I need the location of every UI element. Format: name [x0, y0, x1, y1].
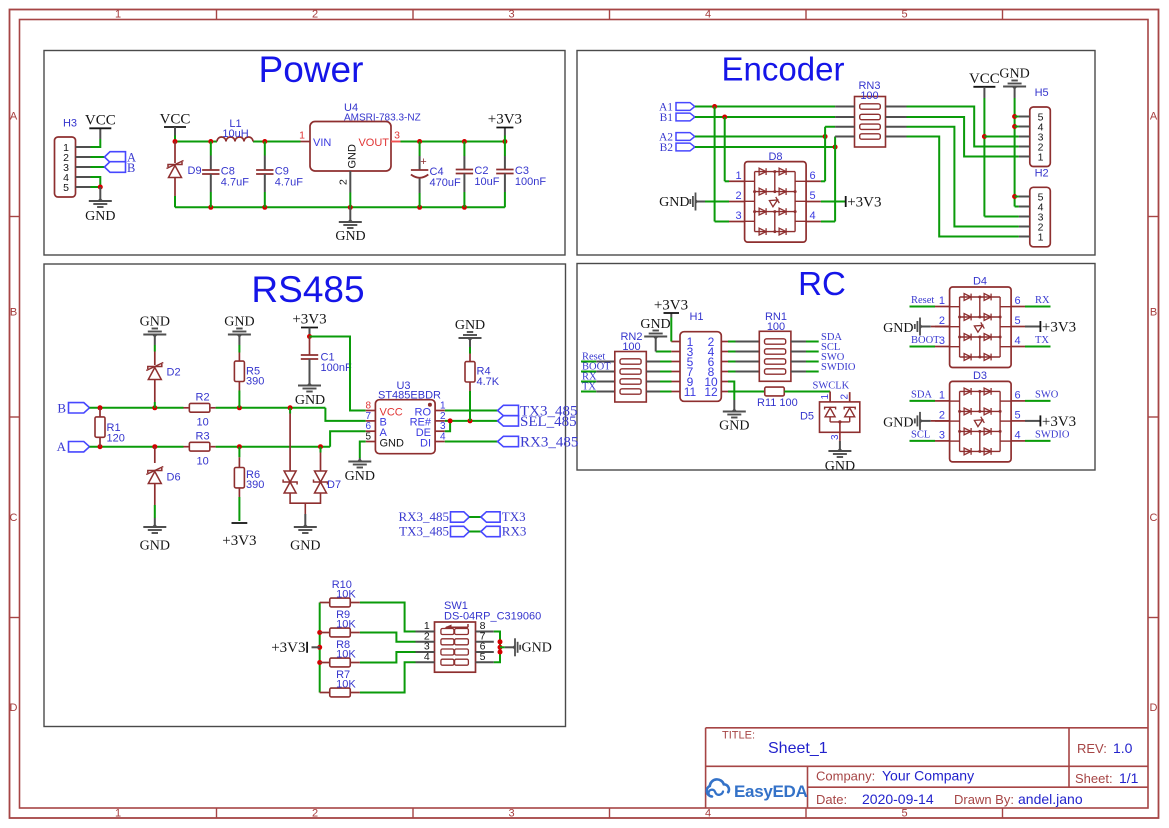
svg-text:+3V3: +3V3 — [654, 298, 688, 314]
svg-text:Reset: Reset — [911, 295, 934, 306]
svg-text:5: 5 — [809, 190, 815, 202]
svg-text:4: 4 — [809, 210, 815, 222]
svg-text:B: B — [57, 400, 66, 415]
svg-text:SWDIO: SWDIO — [1035, 430, 1070, 441]
svg-text:100nF: 100nF — [321, 362, 352, 374]
svg-text:100: 100 — [767, 321, 785, 333]
svg-text:10: 10 — [197, 456, 209, 468]
svg-text:4.7uF: 4.7uF — [221, 177, 249, 189]
svg-text:+3V3: +3V3 — [488, 112, 522, 128]
svg-text:10K: 10K — [336, 649, 356, 661]
svg-text:1: 1 — [939, 295, 945, 307]
svg-text:GND: GND — [659, 195, 689, 210]
svg-text:D7: D7 — [327, 479, 341, 491]
svg-text:GND: GND — [455, 318, 485, 333]
svg-text:GND: GND — [999, 67, 1029, 82]
svg-text:D4: D4 — [973, 276, 987, 288]
svg-text:GND: GND — [140, 315, 170, 330]
svg-text:Sheet:: Sheet: — [1075, 771, 1113, 786]
svg-text:120: 120 — [107, 433, 125, 445]
svg-text:A: A — [57, 439, 67, 454]
svg-text:1.0: 1.0 — [1113, 740, 1133, 756]
svg-text:B: B — [1150, 307, 1157, 319]
svg-text:2020-09-14: 2020-09-14 — [862, 791, 934, 807]
svg-text:GND: GND — [224, 315, 254, 330]
svg-text:+: + — [420, 156, 426, 168]
svg-text:3: 3 — [508, 9, 514, 21]
svg-text:+3V3: +3V3 — [222, 533, 256, 549]
svg-text:10uF: 10uF — [474, 176, 499, 188]
svg-text:Drawn By:: Drawn By: — [954, 792, 1014, 807]
svg-text:D: D — [10, 702, 18, 714]
svg-text:+3V3: +3V3 — [271, 640, 305, 656]
svg-text:AMSRI-783.3-NZ: AMSRI-783.3-NZ — [344, 113, 421, 124]
svg-text:5: 5 — [901, 808, 907, 820]
svg-text:D8: D8 — [768, 151, 782, 163]
svg-text:3: 3 — [508, 808, 514, 820]
svg-text:EasyEDA: EasyEDA — [734, 782, 808, 801]
svg-text:GND: GND — [140, 539, 170, 554]
svg-text:BOOT: BOOT — [911, 335, 940, 346]
svg-text:3: 3 — [735, 210, 741, 222]
svg-text:3: 3 — [939, 429, 945, 441]
svg-text:2: 2 — [312, 808, 318, 820]
svg-text:SEL_485: SEL_485 — [520, 414, 577, 430]
svg-text:2: 2 — [939, 315, 945, 327]
svg-text:GND: GND — [85, 209, 115, 224]
svg-text:4: 4 — [1014, 429, 1020, 441]
svg-text:5: 5 — [1014, 409, 1020, 421]
svg-text:GND: GND — [347, 144, 359, 169]
svg-text:390: 390 — [246, 479, 264, 491]
svg-text:RC: RC — [798, 265, 846, 302]
svg-text:4: 4 — [705, 808, 711, 820]
svg-text:TX: TX — [1035, 335, 1049, 346]
svg-text:REV:: REV: — [1077, 741, 1107, 756]
svg-text:4: 4 — [1014, 335, 1020, 347]
svg-text:+3V3: +3V3 — [847, 195, 881, 211]
svg-text:SWO: SWO — [1035, 390, 1059, 401]
svg-text:B2: B2 — [660, 142, 674, 154]
svg-text:100: 100 — [860, 90, 878, 102]
svg-text:GND: GND — [883, 321, 913, 336]
svg-text:10uH: 10uH — [222, 128, 248, 140]
svg-text:DI: DI — [420, 437, 431, 449]
svg-text:SWDIO: SWDIO — [821, 362, 856, 373]
svg-text:A: A — [10, 111, 18, 123]
svg-text:GND: GND — [345, 469, 375, 484]
svg-text:Company:: Company: — [816, 769, 875, 784]
svg-text:D3: D3 — [973, 370, 987, 382]
svg-text:GND: GND — [825, 459, 855, 474]
svg-text:GND: GND — [290, 539, 320, 554]
svg-text:Power: Power — [259, 49, 364, 90]
svg-text:H5: H5 — [1035, 87, 1049, 99]
svg-text:6: 6 — [809, 170, 815, 182]
svg-text:GND: GND — [640, 317, 670, 332]
svg-text:C: C — [10, 512, 18, 524]
svg-text:470uF: 470uF — [430, 177, 461, 189]
svg-text:11: 11 — [684, 385, 697, 399]
svg-text:Your Company: Your Company — [882, 768, 974, 784]
svg-text:1: 1 — [820, 394, 831, 400]
svg-text:D5: D5 — [800, 411, 814, 423]
svg-text:VCC: VCC — [85, 113, 116, 129]
svg-text:3: 3 — [394, 130, 400, 142]
svg-text:+3V3: +3V3 — [1042, 414, 1076, 430]
svg-text:RX3: RX3 — [502, 524, 527, 539]
svg-text:1/1: 1/1 — [1119, 770, 1139, 786]
svg-text:R2: R2 — [196, 392, 210, 404]
svg-text:H2: H2 — [1035, 168, 1049, 180]
svg-text:+3V3: +3V3 — [1042, 320, 1076, 336]
svg-text:Sheet_1: Sheet_1 — [768, 740, 828, 757]
svg-text:TX3: TX3 — [502, 509, 526, 524]
svg-text:B1: B1 — [660, 112, 674, 124]
svg-text:1: 1 — [939, 389, 945, 401]
svg-text:10: 10 — [197, 417, 209, 429]
svg-text:1: 1 — [115, 9, 121, 21]
svg-text:VCC: VCC — [160, 112, 191, 128]
svg-text:D2: D2 — [167, 367, 181, 379]
svg-text:RX3_485: RX3_485 — [520, 435, 578, 451]
svg-text:RX3_485: RX3_485 — [398, 509, 449, 524]
svg-text:1: 1 — [299, 130, 305, 142]
svg-text:RX: RX — [1035, 295, 1050, 306]
svg-text:B: B — [10, 307, 17, 319]
svg-text:andel.jano: andel.jano — [1018, 791, 1083, 807]
svg-text:390: 390 — [246, 376, 264, 388]
svg-text:+3V3: +3V3 — [292, 312, 326, 328]
svg-text:GND: GND — [335, 229, 365, 244]
svg-text:VOUT: VOUT — [358, 137, 389, 149]
svg-text:100: 100 — [622, 341, 640, 353]
svg-text:5: 5 — [1014, 315, 1020, 327]
svg-text:1: 1 — [115, 808, 121, 820]
svg-text:GND: GND — [522, 641, 552, 656]
svg-text:SWCLK: SWCLK — [813, 381, 850, 392]
svg-text:Encoder: Encoder — [722, 51, 845, 88]
svg-text:2: 2 — [312, 9, 318, 21]
svg-text:D9: D9 — [188, 165, 202, 177]
svg-text:GND: GND — [883, 415, 913, 430]
svg-text:SDA: SDA — [911, 390, 932, 401]
svg-text:12: 12 — [704, 385, 718, 399]
svg-text:GND: GND — [380, 437, 405, 449]
svg-text:TX: TX — [582, 382, 596, 393]
svg-text:VCC: VCC — [969, 71, 1000, 87]
svg-text:2: 2 — [939, 409, 945, 421]
svg-text:R11 100: R11 100 — [757, 397, 798, 409]
svg-text:10K: 10K — [336, 619, 356, 631]
svg-text:GND: GND — [295, 393, 325, 408]
svg-text:SCL: SCL — [911, 430, 930, 441]
svg-text:DS-04RP_C319060: DS-04RP_C319060 — [444, 611, 541, 623]
svg-text:2: 2 — [840, 394, 851, 400]
svg-text:4: 4 — [424, 651, 430, 663]
svg-text:TITLE:: TITLE: — [722, 730, 755, 742]
svg-text:2: 2 — [338, 179, 350, 185]
svg-text:1: 1 — [1038, 232, 1044, 244]
svg-text:3: 3 — [939, 335, 945, 347]
svg-text:VIN: VIN — [313, 137, 331, 149]
svg-text:D6: D6 — [167, 472, 181, 484]
svg-text:10K: 10K — [336, 589, 356, 601]
svg-text:R3: R3 — [196, 431, 210, 443]
svg-text:6: 6 — [1014, 389, 1020, 401]
svg-text:100nF: 100nF — [515, 176, 546, 188]
svg-text:5: 5 — [480, 651, 486, 663]
svg-text:B: B — [127, 161, 135, 175]
svg-text:A: A — [1150, 111, 1158, 123]
svg-text:ST485EBDR: ST485EBDR — [378, 390, 441, 402]
svg-text:H1: H1 — [689, 311, 703, 323]
svg-text:4.7uF: 4.7uF — [275, 177, 303, 189]
svg-text:4.7K: 4.7K — [477, 376, 500, 388]
svg-text:RS485: RS485 — [251, 269, 364, 310]
svg-text:1: 1 — [735, 170, 741, 182]
svg-text:6: 6 — [1014, 295, 1020, 307]
svg-text:10K: 10K — [336, 679, 356, 691]
svg-text:TX3_485: TX3_485 — [399, 524, 449, 539]
svg-text:5: 5 — [901, 9, 907, 21]
svg-text:4: 4 — [705, 9, 711, 21]
svg-text:2: 2 — [735, 190, 741, 202]
svg-text:Date:: Date: — [816, 792, 847, 807]
svg-text:H3: H3 — [63, 118, 77, 130]
svg-text:1: 1 — [1038, 152, 1044, 164]
svg-text:GND: GND — [719, 419, 749, 434]
svg-text:5: 5 — [63, 182, 69, 194]
svg-text:D: D — [1150, 702, 1158, 714]
svg-text:C: C — [1150, 512, 1158, 524]
